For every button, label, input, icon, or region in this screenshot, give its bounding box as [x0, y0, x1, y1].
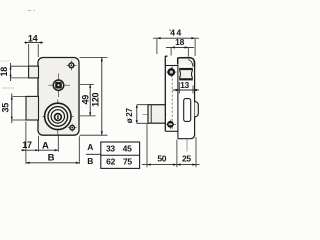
svg-text:33: 33 — [106, 144, 115, 154]
svg-text:18: 18 — [175, 37, 184, 47]
cylinder rings — [45, 103, 71, 129]
dim 14 top — [29, 44, 39, 66]
svg-text:25: 25 — [182, 154, 191, 164]
slot in side view — [184, 99, 191, 122]
svg-text:49: 49 — [81, 95, 91, 105]
cylinder side axis — [143, 114, 167, 116]
svg-text:35: 35 — [1, 103, 11, 113]
curved cap — [178, 58, 195, 67]
dim 120 right — [80, 57, 108, 135]
svg-text:14: 14 — [28, 33, 38, 43]
hub follower U1 — [53, 80, 63, 90]
svg-text:ø 27: ø 27 — [125, 108, 134, 124]
svg-text:A: A — [87, 142, 93, 152]
screw hole top-right — [66, 60, 76, 70]
dim 35 left — [13, 96, 27, 120]
svg-text:50: 50 — [157, 154, 166, 164]
hidden dashed line — [171, 67, 173, 131]
svg-text:45: 45 — [123, 144, 132, 154]
cylinder crosshair — [43, 100, 74, 136]
svg-text:A: A — [42, 140, 49, 151]
side case front edge — [177, 65, 179, 139]
dim 50 25 line — [142, 164, 200, 166]
dim 17 and A row — [21, 149, 58, 151]
svg-text:B: B — [87, 156, 93, 166]
svg-text:17: 17 — [22, 140, 32, 150]
bottom dim extension lines — [26, 122, 79, 165]
deadbolt front — [26, 96, 39, 120]
side case top edge — [165, 65, 178, 67]
dim 18 left — [11, 66, 28, 78]
side view back plate — [165, 56, 167, 131]
cylinder side rect — [148, 105, 165, 124]
dims 50 and 25 extension lines — [147, 124, 196, 167]
cylinder keyhole — [55, 114, 62, 121]
dim 44 top — [157, 39, 195, 56]
hub crosshair — [49, 74, 71, 98]
faceplate front edge — [194, 62, 196, 136]
svg-text:B: B — [48, 153, 55, 164]
dim 13 — [179, 82, 193, 94]
latch bolt front — [29, 66, 39, 78]
screw hole bottom-right — [68, 124, 77, 132]
svg-text:75: 75 — [123, 157, 132, 167]
dim diameter 27 — [137, 105, 148, 124]
svg-text:18: 18 — [0, 67, 9, 77]
dim B row — [26, 162, 80, 164]
dim 18 side — [171, 48, 188, 57]
deadbolt tip bump — [195, 101, 199, 117]
svg-text:120: 120 — [90, 92, 100, 106]
screw side top — [166, 67, 176, 77]
dim 49 right — [80, 84, 96, 116]
faint channel line — [186, 139, 188, 151]
screw side bottom — [166, 120, 176, 130]
svg-text:13: 13 — [180, 80, 189, 90]
latch spool side — [179, 70, 192, 78]
side case bottom — [165, 130, 178, 132]
lock body front view — [38, 58, 79, 136]
value table — [101, 142, 140, 168]
svg-text:62: 62 — [106, 157, 115, 167]
